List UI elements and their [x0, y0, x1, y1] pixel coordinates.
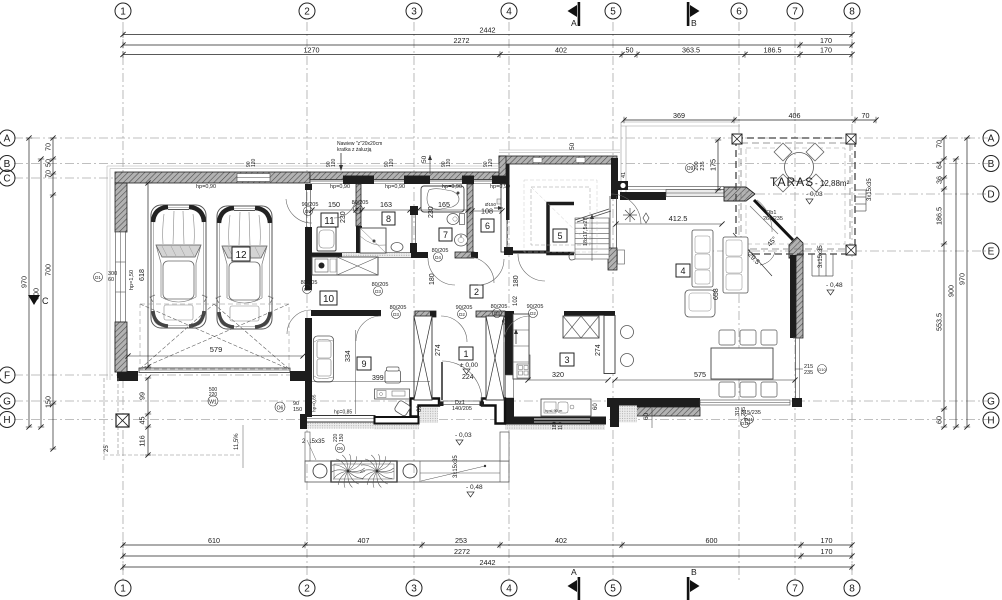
garage door opening: [139, 368, 290, 373]
svg-text:120: 120: [251, 158, 257, 167]
svg-text:4: 4: [680, 266, 685, 276]
hall shoe cabinet: [516, 355, 530, 379]
stair window block: [618, 181, 628, 190]
svg-text:hp=0,90: hp=0,90: [385, 184, 405, 190]
porch steps: [420, 472, 500, 474]
section marker B top: [690, 5, 700, 17]
living dim 412.5: [616, 223, 722, 225]
porch plant 2: [377, 471, 394, 473]
svg-text:150: 150: [44, 396, 53, 408]
tag D1 300/60: [94, 273, 103, 282]
kitchen stool 2: [621, 354, 634, 367]
svg-text:10: 10: [323, 294, 335, 305]
svg-text:60: 60: [108, 277, 114, 283]
entry door jamb right: [480, 402, 485, 407]
svg-text:5: 5: [610, 584, 616, 595]
window stair 2: [576, 158, 585, 163]
living armchair: [685, 290, 715, 317]
svg-text:407: 407: [358, 536, 370, 545]
garage front corner left: [117, 371, 138, 381]
svg-text:D3: D3: [393, 312, 399, 317]
svg-text:260/235: 260/235: [763, 216, 783, 222]
svg-text:H: H: [3, 415, 10, 426]
room tag 7: [439, 228, 452, 241]
kitchen island: [563, 316, 599, 338]
wall right of room6: [501, 184, 507, 252]
dim chain right detail: [935, 135, 948, 429]
office desk: [375, 389, 410, 399]
svg-text:hp=0,90: hp=0,90: [196, 184, 216, 190]
stair bottom cap left: [504, 247, 513, 255]
svg-text:± 0,00: ± 0,00: [460, 362, 478, 369]
svg-text:- 0,03: - 0,03: [455, 432, 472, 439]
window top room7: [430, 180, 462, 182]
porch right strip: [500, 432, 509, 461]
svg-text:120: 120: [488, 158, 494, 167]
door tag D11 #9: [745, 415, 754, 424]
svg-text:41: 41: [621, 172, 627, 178]
svg-text:50: 50: [569, 142, 576, 150]
svg-text:F: F: [4, 371, 10, 382]
svg-text:80/205: 80/205: [372, 282, 389, 288]
svg-text:D3: D3: [375, 289, 381, 294]
door tag D2 #8: [529, 309, 538, 318]
svg-text:6: 6: [485, 221, 490, 231]
door tag D9 #0: [304, 207, 313, 216]
svg-text:553.5: 553.5: [935, 313, 944, 331]
svg-text:hp=0,90: hp=0,90: [490, 184, 510, 190]
tag O9 200/235: [686, 164, 695, 173]
svg-text:658: 658: [713, 288, 720, 300]
car 2 in garage: [217, 206, 272, 329]
svg-text:G: G: [987, 397, 995, 408]
exterior wall top rooms hatch band: [310, 172, 507, 180]
tag O6 90/150: [275, 402, 285, 412]
entry bottom-right L wall: [482, 399, 505, 424]
exterior wall living bottom black: [607, 398, 700, 407]
kitchen dim 320: [528, 379, 608, 381]
svg-text:120: 120: [389, 158, 395, 167]
svg-text:60: 60: [643, 412, 650, 420]
section marker B bottom: [690, 580, 700, 592]
svg-text:Ø150: Ø150: [485, 202, 497, 207]
svg-text:3: 3: [411, 7, 417, 18]
svg-text:64: 64: [935, 161, 944, 169]
svg-text:4: 4: [506, 7, 512, 18]
svg-text:O9: O9: [687, 166, 694, 172]
office dim lines: [355, 330, 357, 414]
dining table: [711, 348, 773, 379]
door arc terrace: [757, 200, 772, 232]
window top room11: [310, 180, 343, 182]
svg-text:363.5: 363.5: [682, 45, 700, 54]
kitchen top wall black: [620, 192, 666, 200]
kitchen island top bar: [564, 311, 615, 316]
tag D6 220/150: [336, 444, 345, 453]
svg-text:11,5%: 11,5%: [234, 433, 240, 450]
eaves line above garage wall: [107, 166, 505, 380]
svg-text:3: 3: [411, 584, 417, 595]
svg-text:2442: 2442: [480, 558, 496, 567]
room tag 1: [459, 347, 473, 360]
svg-text:8: 8: [849, 584, 855, 595]
dim chain right 900: [947, 156, 960, 429]
porch left strip: [305, 432, 310, 461]
svg-text:D11: D11: [745, 417, 753, 422]
svg-text:618: 618: [137, 269, 146, 281]
door arc garage: [286, 199, 312, 223]
svg-text:70: 70: [935, 140, 944, 148]
svg-text:2272: 2272: [454, 547, 470, 556]
room tag 6: [481, 219, 494, 232]
svg-text:18x17,5x27: 18x17,5x27: [583, 218, 589, 246]
svg-text:80/205: 80/205: [432, 248, 449, 254]
door arc living: [611, 194, 641, 224]
svg-text:180: 180: [429, 273, 436, 285]
car 1 in garage: [151, 205, 206, 328]
svg-text:hpsl,90 m: hpsl,90 m: [545, 408, 563, 413]
svg-text:140/205: 140/205: [452, 406, 472, 412]
svg-text:8: 8: [386, 214, 391, 224]
tag W1 circle: [208, 396, 218, 406]
svg-text:700: 700: [44, 264, 53, 276]
wall room11/8 divider: [356, 184, 361, 226]
window kitchen top: [666, 190, 724, 197]
window garage left: [116, 232, 126, 322]
kitchen bottom step wall: [610, 398, 619, 427]
stair bottom cap right hatch: [608, 248, 617, 270]
living dim 229.5: [733, 233, 772, 276]
section marker A top: [568, 5, 578, 17]
svg-text:hp=0,85: hp=0,85: [334, 410, 352, 416]
wall below room10: [311, 310, 381, 316]
room tag 2: [470, 285, 483, 298]
porch plant 1: [348, 471, 365, 473]
dining chairs: [719, 330, 735, 345]
svg-text:A: A: [571, 18, 577, 28]
bay wall lower pentagon: [789, 237, 803, 258]
kitchen stool 1: [621, 326, 634, 339]
svg-text:406: 406: [789, 111, 801, 120]
stair left wall: [506, 164, 510, 220]
door arc room11: [334, 196, 356, 218]
svg-text:900: 900: [947, 285, 956, 297]
svg-text:B: B: [4, 159, 11, 170]
living sofa right: [723, 237, 748, 293]
svg-text:80/205: 80/205: [301, 280, 318, 286]
garage front corner right: [290, 371, 312, 381]
stair core C wall: [548, 204, 574, 254]
svg-text:70: 70: [44, 143, 53, 151]
dim chain top row3: [120, 45, 854, 57]
door arc room2: [468, 257, 494, 283]
svg-text:B: B: [691, 567, 697, 577]
top wall pier 3: [462, 176, 474, 185]
kitchen bottom wall: [505, 417, 606, 425]
terrace steps right: [855, 190, 866, 211]
dim chain right 970: [958, 135, 971, 429]
svg-text:2: 2: [474, 287, 479, 297]
svg-text:hp=0,85: hp=0,85: [312, 394, 318, 412]
garage dim 579: [128, 355, 303, 357]
star symbol: [623, 208, 637, 222]
wall room8/7 block: [410, 206, 418, 215]
svg-text:186.5: 186.5: [764, 45, 782, 54]
door tag D3 #3: [303, 285, 312, 294]
svg-text:- 0,48: - 0,48: [826, 282, 843, 289]
dim 163 room8: [362, 209, 410, 211]
svg-text:D3: D3: [304, 287, 310, 292]
svg-text:315/235: 315/235: [741, 410, 761, 416]
svg-text:25: 25: [104, 445, 110, 452]
door arc entry: [442, 361, 482, 401]
svg-text:110: 110: [558, 422, 564, 430]
top wall pier 2: [404, 176, 430, 185]
terrace chair NW: [774, 143, 792, 161]
wall garage/rooms divider: [305, 184, 312, 190]
svg-text:1: 1: [120, 7, 126, 18]
svg-text:50: 50: [421, 155, 428, 163]
svg-text:334: 334: [345, 350, 352, 362]
garage door X swing: [140, 304, 289, 369]
svg-text:50: 50: [44, 159, 53, 167]
svg-text:B: B: [988, 159, 995, 170]
dim chain left detail: [44, 135, 57, 451]
svg-text:610: 610: [208, 536, 220, 545]
wall below room6 hatch: [455, 252, 474, 258]
office bottom stipple: [300, 423, 375, 429]
terrace chair NE: [806, 143, 824, 161]
svg-text:hp=0,90: hp=0,90: [330, 184, 350, 190]
svg-text:90/205: 90/205: [302, 202, 319, 208]
driveway dims left: [138, 375, 152, 457]
svg-text:D2: D2: [530, 311, 536, 316]
dim chain top 2442: [120, 25, 854, 37]
svg-text:9: 9: [361, 359, 366, 369]
svg-text:kratka z żaluzją: kratka z żaluzją: [337, 147, 372, 153]
svg-text:11: 11: [324, 216, 335, 227]
porch step diagonal: [421, 466, 485, 481]
svg-text:- 0,03: - 0,03: [806, 191, 823, 198]
kitchen counter bottom: [541, 399, 591, 416]
duct square room6: [497, 199, 502, 204]
porch planter: [331, 461, 397, 482]
dim chain left 900: [32, 156, 45, 429]
window top garage: [237, 174, 270, 182]
door tag D3 #7: [493, 309, 502, 318]
svg-text:50: 50: [626, 45, 634, 54]
svg-text:1: 1: [120, 584, 126, 595]
svg-text:1: 1: [463, 349, 468, 359]
svg-text:3x15x35: 3x15x35: [867, 178, 873, 201]
svg-text:120: 120: [446, 158, 452, 167]
door arc room6 hall: [478, 259, 504, 285]
svg-text:A: A: [988, 134, 995, 145]
svg-text:C: C: [3, 174, 10, 185]
svg-text:E: E: [988, 247, 995, 258]
terrace post BL: [732, 245, 742, 255]
garage front wall left stub: [115, 330, 127, 372]
wall room1/kitchen divider: [486, 316, 504, 400]
entry door jamb left: [439, 402, 444, 407]
svg-text:99: 99: [138, 392, 147, 400]
garage door swing dashed box: [140, 304, 289, 369]
terrace dim 369/406/70: [621, 111, 878, 123]
svg-text:150: 150: [328, 200, 340, 209]
living bottom right cap: [792, 398, 802, 407]
svg-text:5: 5: [557, 231, 562, 241]
svg-text:108: 108: [481, 207, 493, 216]
svg-text:90/205: 90/205: [527, 304, 544, 310]
office chair upright: [385, 371, 401, 384]
entry threshold: [443, 400, 481, 402]
kitchen hob: [517, 364, 529, 378]
wall room8/7 divider: [410, 243, 417, 255]
svg-text:D6: D6: [337, 446, 343, 451]
office sofa: [314, 336, 334, 382]
svg-text:- 12,88m²: - 12,88m²: [815, 179, 850, 188]
svg-text:TARAS: TARAS: [770, 175, 814, 189]
terrace round table: [785, 153, 814, 182]
svg-text:60: 60: [593, 403, 599, 410]
door arc D4 hall: [428, 258, 455, 285]
svg-text:150: 150: [339, 433, 345, 442]
svg-text:7: 7: [443, 230, 448, 240]
wall room9/1 divider: [414, 316, 432, 400]
dim chain left 970: [20, 135, 33, 429]
window stair 1: [533, 158, 542, 163]
dim chain bottom 2442: [120, 558, 854, 570]
room tag 3: [560, 353, 574, 366]
door tag D4 #2: [434, 253, 443, 262]
svg-text:600: 600: [706, 536, 718, 545]
svg-text:D1: D1: [95, 275, 101, 280]
svg-text:12: 12: [235, 250, 247, 261]
entry right wall: [505, 311, 514, 375]
svg-text:235: 235: [700, 161, 706, 170]
svg-text:4: 4: [506, 584, 512, 595]
top wall pier 4: [492, 176, 507, 185]
svg-text:170: 170: [821, 547, 833, 556]
entry step wall outline: [411, 399, 440, 417]
sink room7: [455, 234, 468, 246]
svg-text:575: 575: [694, 370, 706, 379]
svg-text:D4: D4: [435, 255, 441, 260]
svg-text:274: 274: [435, 344, 442, 356]
wall stair-kitchen vertical: [611, 158, 618, 199]
porch outline: [305, 461, 509, 482]
svg-text:B: B: [691, 18, 697, 28]
svg-text:412.5: 412.5: [669, 214, 688, 223]
driveway gate post: [116, 414, 129, 427]
svg-text:hp=0,90: hp=0,90: [442, 184, 462, 190]
entry step stipple: [419, 407, 438, 423]
dim chain top 2272+170: [120, 36, 854, 48]
svg-text:D3: D3: [494, 311, 500, 316]
svg-text:O6: O6: [277, 406, 284, 412]
eaves line top: [621, 122, 740, 192]
svg-text:970: 970: [958, 273, 967, 285]
corner wall bay pentagon: [724, 187, 755, 201]
office bottom wall lower band: [375, 417, 419, 424]
driveway boundary: [104, 378, 240, 460]
svg-text:H: H: [987, 416, 994, 427]
stairs break line: [575, 209, 609, 220]
stair block left jog: [499, 156, 506, 176]
room tag 9: [357, 357, 371, 370]
exterior wall top (stair block): [499, 156, 617, 164]
svg-text:320: 320: [552, 370, 564, 379]
svg-text:235: 235: [804, 370, 813, 376]
stair right shaft lines: [609, 196, 611, 250]
window glass line kitchen top: [620, 186, 724, 188]
svg-text:C: C: [42, 296, 49, 306]
door tag D2 #6: [458, 310, 467, 319]
terrace post TR: [846, 134, 856, 144]
dim 108 room6: [472, 210, 502, 212]
room tag 10: [320, 291, 337, 305]
svg-text:D: D: [987, 190, 994, 201]
stairs dashed opening: [531, 187, 590, 245]
terrace chair SE: [807, 174, 825, 192]
wall room7/6 divider: [467, 184, 473, 254]
svg-text:170: 170: [820, 45, 832, 54]
door tag D3 #4: [374, 287, 383, 296]
stairs treads: [575, 218, 609, 259]
svg-text:G: G: [3, 397, 11, 408]
svg-text:A: A: [4, 134, 11, 145]
svg-text:7: 7: [792, 7, 798, 18]
svg-text:60: 60: [417, 405, 423, 412]
svg-text:D9: D9: [305, 209, 311, 214]
svg-text:2: 2: [304, 584, 310, 595]
svg-text:D4: D4: [355, 207, 361, 212]
window living bottom: [700, 400, 790, 405]
dim chain bottom row1: [120, 536, 854, 548]
svg-text:7: 7: [792, 584, 798, 595]
svg-text:W1: W1: [209, 400, 217, 406]
wall below hall right: [476, 311, 505, 317]
terrace post TL: [732, 134, 742, 144]
room tag 5: [553, 229, 567, 242]
svg-text:224: 224: [462, 374, 474, 381]
window living right: [795, 338, 797, 400]
svg-text:D10: D10: [818, 367, 826, 372]
dim 150 room11: [312, 209, 356, 211]
porch circle left: [313, 464, 327, 478]
exterior wall garage left upper: [115, 183, 127, 232]
door arc kitchen: [504, 316, 530, 342]
door arc room10: [287, 310, 311, 334]
dining dim 575: [615, 379, 795, 381]
stair left wall dashed lower: [507, 220, 509, 247]
eaves line above stair block: [499, 150, 620, 153]
svg-text:80/205: 80/205: [491, 304, 508, 310]
svg-text:2: 2: [304, 7, 310, 18]
svg-text:6: 6: [736, 7, 742, 18]
terrace outline: [736, 138, 855, 254]
svg-text:220: 220: [209, 392, 218, 398]
terrace post BR: [846, 245, 856, 255]
terrace chair SW: [774, 174, 792, 192]
room tag 4: [676, 264, 690, 277]
level marker C left: [28, 295, 40, 305]
terrace steps bottom: [812, 254, 833, 276]
svg-text:970: 970: [20, 276, 29, 288]
wall hall center block: [415, 311, 436, 317]
window top room8: [374, 180, 404, 182]
svg-text:A: A: [571, 567, 577, 577]
